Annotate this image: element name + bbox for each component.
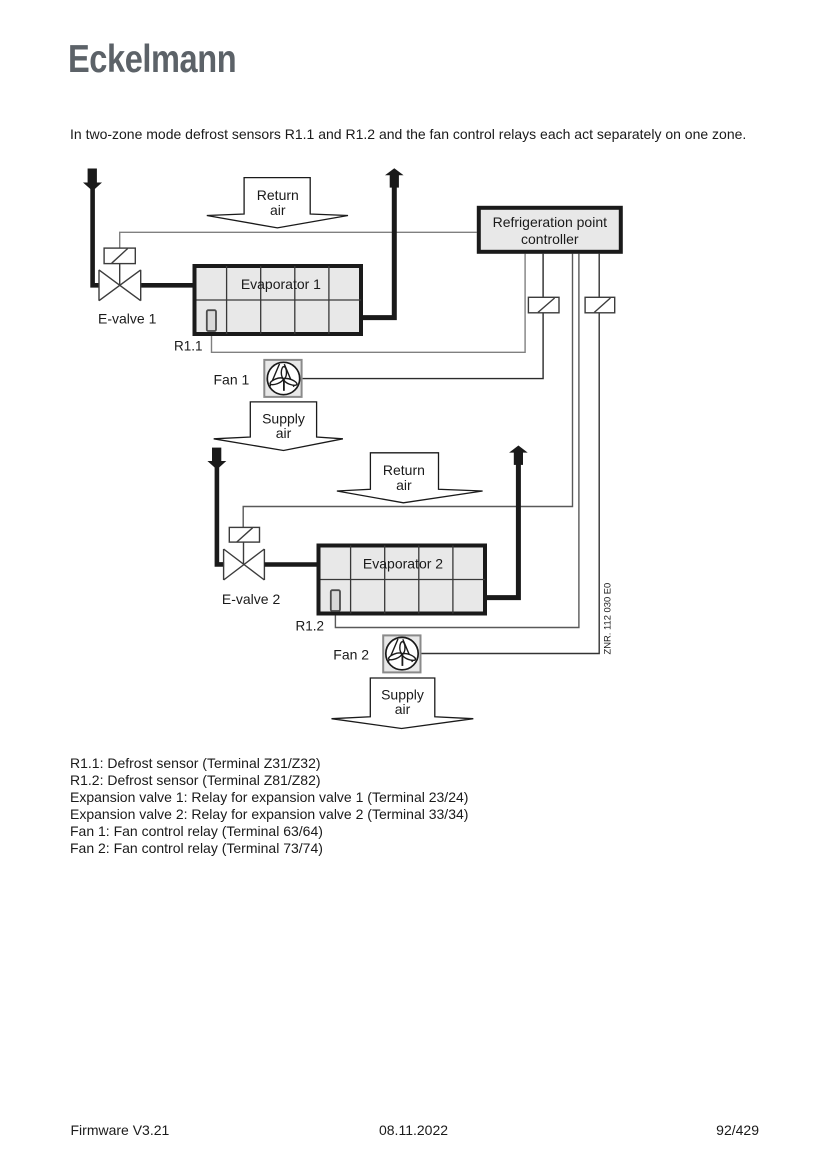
wire: fan 1 to controller via relay — [303, 254, 543, 379]
evaporator 1 — [195, 266, 362, 334]
pipe: E-valve 2 to Evaporator 2 — [264, 562, 316, 567]
Eckelmann logo wordmark — [68, 38, 236, 82]
solenoid coil of E-valve 1 — [104, 248, 135, 285]
evaporator 2 — [319, 546, 486, 614]
supply air arrow zone 2 — [332, 678, 474, 729]
svg-text:Fan 1: Fan 1 — [214, 372, 250, 388]
pipe: E-valve 1 to Evaporator 1 — [141, 283, 193, 288]
relay: expansion valve 2 output — [585, 297, 615, 313]
fan 2 — [383, 635, 420, 672]
solenoid coil of E-valve 2 — [229, 527, 259, 564]
pipe: Evaporator 1 suction out — [363, 187, 394, 318]
svg-text:air: air — [276, 425, 292, 441]
svg-text:Return: Return — [383, 462, 425, 478]
pipe: Evaporator 2 suction out — [487, 464, 518, 597]
footer right — [716, 1122, 759, 1138]
svg-text:R1.2: R1.2 — [295, 619, 324, 634]
svg-text:air: air — [395, 701, 411, 717]
wire: solenoid 1 to controller (gray) — [120, 232, 477, 248]
svg-text:air: air — [270, 202, 286, 218]
svg-text:Evaporator 1: Evaporator 1 — [241, 276, 321, 292]
svg-text:controller: controller — [521, 231, 579, 247]
footer left — [71, 1122, 170, 1138]
wire: fan 2 to controller via relay — [421, 254, 600, 654]
arrow: flow down into E-valve 1 — [83, 169, 102, 192]
E-valve 1 body (expansion valve) — [99, 270, 141, 301]
relay: expansion valve 1 output — [528, 297, 559, 313]
return air arrow zone 1 — [207, 178, 348, 228]
svg-text:Evaporator 2: Evaporator 2 — [363, 556, 443, 572]
return air arrow zone 2 — [337, 453, 483, 503]
svg-text:Return: Return — [257, 187, 299, 203]
svg-text:Supply: Supply — [381, 686, 424, 702]
defrost sensor R1.1 — [207, 310, 216, 331]
E-valve 2 body (expansion valve) — [224, 549, 265, 580]
svg-text:R1.1: R1.1 — [174, 339, 203, 354]
footer center — [0, 1122, 827, 1138]
supply air arrow zone 1 — [214, 402, 343, 451]
wire: defrost sensor R1.1 to controller (gray) — [212, 254, 526, 352]
pipe: liquid line into E-valve 2 — [217, 465, 224, 564]
arrow: flow down into E-valve 2 — [207, 448, 226, 470]
svg-text:E-valve 2: E-valve 2 — [222, 591, 281, 607]
svg-text:Refrigeration point: Refrigeration point — [493, 214, 608, 230]
wire: defrost sensor R1.2 to controller — [335, 254, 579, 628]
svg-text:ZNR. 112 030 E0: ZNR. 112 030 E0 — [601, 583, 612, 655]
pipe: liquid line into E-valve 1 — [93, 187, 100, 285]
legend text block — [70, 755, 468, 856]
arrow: suction gas up (zone 2) — [509, 446, 528, 465]
wire: solenoid 2 to controller — [243, 254, 572, 528]
refrigeration point controller — [479, 208, 621, 252]
defrost sensor R1.2 — [331, 590, 340, 611]
fan 1 — [264, 360, 301, 397]
svg-text:air: air — [396, 477, 412, 493]
arrow: suction gas up (zone 1) — [385, 168, 404, 187]
svg-text:Fan 2: Fan 2 — [333, 646, 369, 662]
svg-text:E-valve 1: E-valve 1 — [98, 311, 157, 327]
svg-text:Supply: Supply — [262, 410, 305, 426]
intro paragraph — [70, 126, 746, 142]
